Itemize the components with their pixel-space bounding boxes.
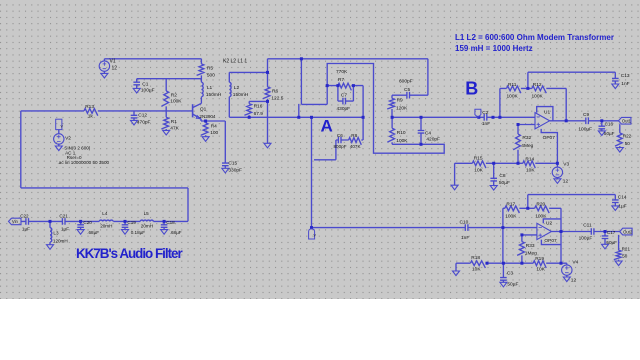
svg-text:1µF: 1µF (61, 226, 69, 231)
svg-text:L2: L2 (234, 85, 240, 91)
svg-text:430pF: 430pF (337, 106, 351, 112)
svg-text:C13: C13 (621, 73, 630, 79)
svg-text:L4: L4 (102, 211, 108, 216)
svg-text:1k: 1k (88, 114, 94, 120)
svg-text:12: 12 (571, 277, 577, 283)
svg-text:500: 500 (207, 73, 215, 79)
svg-text:100µF: 100µF (579, 236, 593, 242)
svg-text:20mH: 20mH (141, 224, 153, 229)
svg-text:12: 12 (112, 66, 118, 72)
svg-text:150mH: 150mH (206, 92, 222, 98)
svg-text:1µF: 1µF (618, 203, 626, 209)
svg-text:C14: C14 (618, 194, 627, 200)
svg-text:330pF: 330pF (228, 168, 242, 174)
svg-text:OP07: OP07 (544, 238, 557, 244)
svg-text:159 mH = 1000 Hertz: 159 mH = 1000 Hertz (455, 44, 533, 53)
svg-text:Out2: Out2 (623, 229, 633, 234)
svg-text:50µF: 50µF (499, 180, 510, 186)
svg-text:67.9: 67.9 (254, 111, 264, 117)
svg-text:L3: L3 (53, 231, 59, 236)
svg-text:KK7B's Audio Filter: KK7B's Audio Filter (76, 246, 183, 261)
svg-text:100: 100 (210, 130, 218, 136)
svg-text:10K: 10K (526, 168, 535, 174)
svg-text:R33: R33 (526, 243, 535, 249)
svg-text:4Meg: 4Meg (521, 143, 533, 149)
svg-text:1nF: 1nF (461, 235, 469, 241)
svg-text:C16: C16 (605, 121, 614, 126)
svg-text:10K: 10K (536, 267, 545, 273)
svg-text:122.5: 122.5 (271, 95, 283, 101)
svg-text:R21: R21 (622, 247, 631, 252)
svg-text:A: A (321, 117, 333, 136)
svg-text:V1: V1 (110, 59, 116, 65)
svg-text:770K: 770K (336, 69, 348, 75)
svg-text:2N3904: 2N3904 (199, 114, 216, 119)
svg-text:C12: C12 (138, 112, 147, 118)
svg-text:R15: R15 (474, 155, 483, 161)
svg-text:R32: R32 (522, 135, 531, 141)
svg-text:B: B (465, 78, 478, 98)
svg-text:50µF: 50µF (606, 240, 617, 245)
svg-text:R4: R4 (211, 123, 217, 129)
svg-text:100K: 100K (170, 99, 182, 105)
svg-text:C1: C1 (142, 81, 148, 87)
svg-text:1Meg: 1Meg (525, 250, 537, 256)
svg-text:.68µF: .68µF (170, 230, 182, 235)
svg-text:R13: R13 (85, 104, 94, 110)
svg-text:R14: R14 (525, 156, 534, 162)
svg-text:C22: C22 (20, 213, 29, 218)
svg-text:120mH: 120mH (53, 239, 68, 244)
svg-text:R7: R7 (338, 77, 344, 83)
svg-text:C17: C17 (607, 230, 616, 235)
svg-text:10K: 10K (474, 167, 483, 173)
svg-text:C6: C6 (337, 133, 343, 138)
svg-text:C20: C20 (83, 220, 92, 225)
svg-text:800pF: 800pF (334, 144, 347, 149)
svg-text:C2: C2 (482, 110, 488, 116)
svg-text:C11: C11 (583, 223, 592, 229)
svg-text:L1: L1 (207, 85, 213, 91)
svg-text:V2: V2 (65, 135, 71, 141)
svg-text:R20: R20 (536, 202, 545, 208)
svg-text:100K: 100K (505, 213, 517, 219)
svg-text:C3: C3 (507, 271, 513, 277)
svg-text:OP07: OP07 (543, 135, 556, 141)
svg-text:R17: R17 (506, 202, 515, 208)
svg-text:L5: L5 (144, 211, 150, 216)
svg-text:R18: R18 (471, 255, 480, 261)
svg-text:R6: R6 (272, 88, 278, 94)
svg-text:C4: C4 (425, 130, 431, 136)
svg-text:R11: R11 (508, 82, 517, 88)
svg-text:R12: R12 (533, 82, 542, 88)
svg-text:C18: C18 (166, 220, 175, 225)
svg-text:100K: 100K (396, 138, 408, 144)
svg-text:R2: R2 (171, 92, 177, 98)
svg-text:.68µF: .68µF (87, 230, 99, 235)
svg-text:50: 50 (625, 141, 631, 146)
svg-text:R8: R8 (351, 133, 357, 138)
svg-text:U2: U2 (546, 221, 552, 227)
svg-text:100K: 100K (535, 213, 547, 219)
svg-text:407K: 407K (350, 144, 362, 149)
svg-text:Vin: Vin (12, 219, 19, 224)
svg-text:100K: 100K (532, 94, 544, 100)
svg-text:R16: R16 (254, 104, 263, 110)
svg-text:C5: C5 (404, 87, 410, 93)
svg-text:120K: 120K (396, 106, 408, 112)
svg-text:.ac lin 10000000 50 3500: .ac lin 10000000 50 3500 (58, 160, 110, 165)
svg-text:R5: R5 (207, 66, 213, 72)
svg-text:C21: C21 (59, 213, 68, 218)
svg-text:470pF: 470pF (137, 120, 151, 126)
svg-text:50µF: 50µF (604, 131, 615, 136)
svg-text:C8: C8 (499, 173, 505, 179)
svg-text:V3: V3 (563, 162, 569, 168)
svg-text:10K: 10K (472, 267, 481, 273)
svg-text:C9: C9 (583, 112, 589, 118)
svg-text:12: 12 (563, 179, 569, 185)
svg-text:1nF: 1nF (482, 121, 490, 127)
svg-text:Out1: Out1 (622, 119, 632, 124)
svg-text:1nF: 1nF (621, 81, 629, 87)
svg-text:100µF: 100µF (141, 88, 155, 94)
svg-text:V4: V4 (572, 259, 578, 265)
svg-text:600pF: 600pF (399, 78, 413, 84)
svg-text:Q1: Q1 (200, 106, 207, 112)
svg-text:100K: 100K (507, 94, 519, 100)
svg-text:0.18µF: 0.18µF (131, 230, 146, 235)
svg-text:47K: 47K (170, 126, 179, 132)
svg-text:C7: C7 (341, 92, 347, 98)
svg-text:R19: R19 (535, 256, 544, 262)
svg-text:150mH: 150mH (233, 92, 249, 98)
svg-text:L1 L2 = 600:600 Ohm Modem Tran: L1 L2 = 600:600 Ohm Modem Transformer (455, 33, 614, 42)
svg-text:C15: C15 (228, 161, 237, 167)
svg-text:20mH: 20mH (100, 224, 112, 229)
svg-text:1µF: 1µF (22, 226, 30, 231)
svg-text:420pF: 420pF (426, 137, 440, 143)
svg-text:50µF: 50µF (507, 282, 518, 288)
svg-text:50: 50 (622, 253, 628, 258)
svg-text:C19: C19 (127, 220, 136, 225)
svg-text:K2 L2 L1 1: K2 L2 L1 1 (223, 59, 247, 65)
svg-text:R22: R22 (623, 134, 632, 139)
svg-text:U1: U1 (544, 110, 550, 116)
svg-text:100µF: 100µF (578, 126, 592, 132)
svg-text:R1: R1 (171, 119, 177, 125)
svg-text:C10: C10 (460, 219, 469, 225)
svg-text:R9: R9 (397, 98, 403, 104)
svg-text:R10: R10 (397, 130, 406, 136)
